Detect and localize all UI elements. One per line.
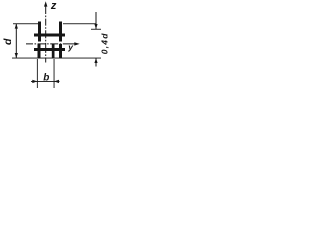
z-axis <box>44 1 47 62</box>
section: bottom web plate <box>34 48 65 51</box>
section: bottom-middle flange bar <box>52 44 55 58</box>
section: bottom-left flange bar <box>38 44 41 58</box>
dimension 0,4d: dimension line upper segment <box>96 12 97 29</box>
section: top web plate <box>34 34 65 37</box>
dimension b: right extension line <box>53 59 56 88</box>
dimension 0,4d: extension line at top of section to dim line <box>63 22 96 25</box>
dimension b: dimension line <box>31 80 60 83</box>
dimension d: top arrowhead <box>15 24 18 29</box>
svg-text:z: z <box>50 0 57 12</box>
dimension d: bottom arrowhead <box>15 53 18 58</box>
section: bottom-right flange bar <box>59 44 62 58</box>
section: top-right flange bar <box>59 22 62 42</box>
dimension d: baseline bottom extension <box>12 57 101 60</box>
y-axis <box>26 42 80 45</box>
dimension 0,4d: lower arrowhead pointing up <box>94 58 97 63</box>
dimension 0,4d: upper arrowhead pointing down <box>94 24 97 29</box>
svg-text:b: b <box>43 73 49 84</box>
svg-text:d: d <box>2 38 14 45</box>
svg-text:0,4d: 0,4d <box>99 32 109 54</box>
section: top-left flange bar <box>38 22 41 42</box>
dimension d: extension line top <box>13 22 38 25</box>
dimension d: dimension line <box>15 24 18 58</box>
dimension b: right arrowhead pointing left <box>54 80 59 83</box>
dimension b: left arrowhead pointing right <box>32 80 37 83</box>
dimension b: left extension line <box>36 59 39 88</box>
dimension 0,4d: upper tick <box>91 28 101 31</box>
dimension 0,4d: dimension line lower segment <box>96 58 97 67</box>
